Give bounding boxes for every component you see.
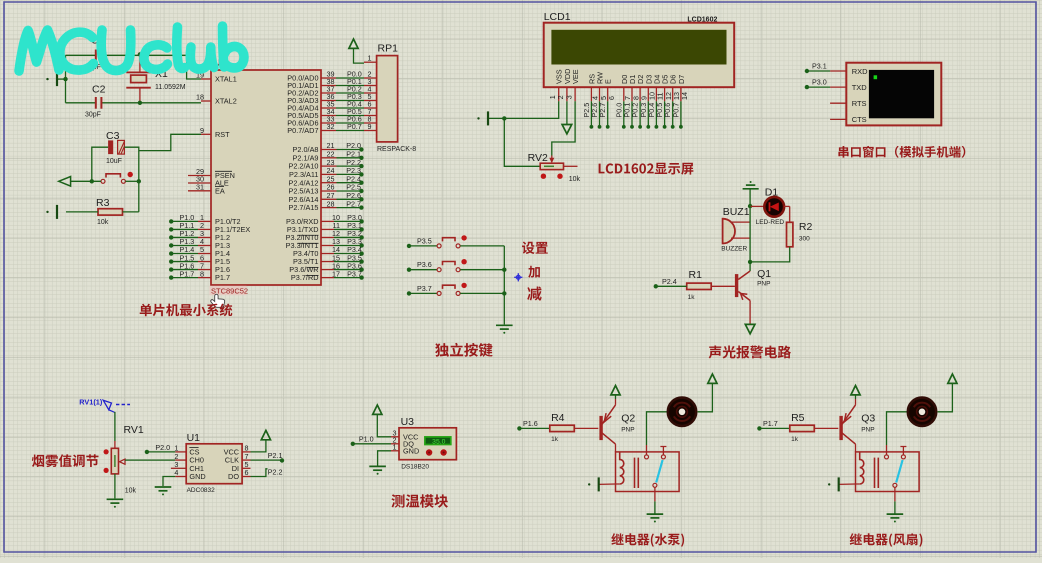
pin P1.4 (5) with net label bbox=[169, 251, 173, 255]
power (U1 VCC) bbox=[261, 430, 270, 439]
pin P2.1/A9 (22) with net label bbox=[321, 157, 337, 159]
ground bbox=[56, 72, 58, 86]
svg-text:10k: 10k bbox=[97, 219, 109, 226]
svg-text:P2.7: P2.7 bbox=[346, 199, 361, 208]
wire power to RP1 pin1 bbox=[354, 48, 365, 63]
wire button P3.6 to common bbox=[460, 269, 504, 271]
net P3.1 bbox=[805, 69, 809, 73]
svg-text:P3.7: P3.7 bbox=[347, 269, 362, 278]
ground (relay) bbox=[887, 514, 904, 518]
ground (U1) bbox=[155, 487, 172, 491]
pin P3.0 (10) with net label bbox=[321, 220, 334, 222]
wire collector to relay box bbox=[855, 444, 857, 452]
ground (relay) bbox=[647, 514, 664, 518]
terminal pin TXD bbox=[830, 86, 846, 88]
U1 pin VCC (8) bbox=[242, 451, 250, 453]
svg-text:300: 300 bbox=[799, 236, 810, 243]
svg-text:RST: RST bbox=[215, 130, 230, 139]
wire VEE to RV2 wiper bbox=[552, 101, 575, 155]
wire D1 to R2 bbox=[784, 205, 790, 207]
net P2.1 bbox=[251, 459, 282, 461]
U3 pin VCC (3) bbox=[391, 436, 399, 438]
pin P3.7 (17) with net label bbox=[321, 277, 334, 279]
wire U1 VCC to power bbox=[251, 440, 266, 452]
wire button P3.7 to common bbox=[460, 292, 504, 294]
svg-text:RESPACK-8: RESPACK-8 bbox=[377, 146, 416, 153]
switch blade (cyan) bbox=[656, 460, 662, 483]
net P1.7 bbox=[757, 426, 761, 430]
pin P3.6 (16) with net label bbox=[321, 269, 334, 271]
junction D1/BUZ1 top bbox=[748, 204, 752, 208]
svg-text:P1.6: P1.6 bbox=[523, 419, 538, 428]
junction crystal bottom bbox=[138, 101, 142, 105]
svg-text:GND: GND bbox=[403, 446, 419, 455]
net P2.4 bbox=[654, 284, 658, 288]
svg-text:R3: R3 bbox=[96, 197, 110, 209]
relay coil bbox=[620, 452, 624, 484]
svg-text:P1.0: P1.0 bbox=[359, 434, 374, 443]
label 声光报警电路 bbox=[709, 345, 791, 358]
svg-text:P3.7: P3.7 bbox=[417, 284, 432, 293]
motor bbox=[908, 398, 936, 426]
net P1.6 bbox=[517, 426, 521, 430]
svg-text:D7: D7 bbox=[677, 75, 686, 84]
svg-text:BUZZER: BUZZER bbox=[721, 246, 747, 253]
terminal pin RXD bbox=[830, 70, 846, 72]
wire Q1 emitter to ground bbox=[749, 301, 751, 325]
pin P3.1 (11) with net label bbox=[321, 228, 334, 230]
ground (U3) bbox=[369, 466, 386, 470]
svg-text:RP1: RP1 bbox=[378, 43, 399, 55]
label 继电器(水泵) bbox=[611, 533, 684, 547]
svg-text:RV1: RV1 bbox=[124, 424, 144, 436]
svg-text:RTS: RTS bbox=[852, 99, 867, 108]
svg-text:P3.7/RD: P3.7/RD bbox=[291, 273, 319, 282]
svg-text:R1: R1 bbox=[689, 269, 703, 281]
wire U3 GND to ground bbox=[378, 451, 391, 466]
pin ALE (30) bbox=[188, 182, 211, 184]
pin P1.6 (7) with net label bbox=[169, 267, 173, 271]
svg-text:DS18B20: DS18B20 bbox=[401, 464, 429, 471]
wire LCD D1 to net P0.1 bbox=[631, 101, 633, 127]
coil to ground-left bbox=[839, 483, 860, 485]
net P2.2 bbox=[251, 469, 268, 477]
wire RST to node bbox=[139, 134, 201, 150]
pin RST (9) bbox=[201, 133, 211, 135]
pin P0.4/AD4 (35) wire to RP1 pin 6 bbox=[321, 107, 336, 109]
push button P3.7 bbox=[407, 291, 411, 295]
wire button left bbox=[71, 180, 101, 182]
svg-text:RV2: RV2 bbox=[528, 152, 548, 164]
power arrow down (VDD) bbox=[562, 125, 572, 134]
wire RV1 wiper to U1 CH0 bbox=[125, 459, 175, 461]
svg-text:1: 1 bbox=[393, 443, 397, 452]
wire LCD RW to net P2.6 bbox=[599, 101, 601, 127]
svg-text:18: 18 bbox=[196, 93, 204, 102]
wire LCD RS to net P2.5 bbox=[590, 101, 592, 127]
power bbox=[851, 386, 860, 395]
svg-text:9: 9 bbox=[200, 126, 204, 135]
pin P0.3/AD3 (36) wire to RP1 pin 5 bbox=[321, 100, 336, 102]
svg-text:6: 6 bbox=[607, 96, 616, 100]
relay box bbox=[616, 452, 680, 492]
svg-text:1k: 1k bbox=[791, 436, 799, 443]
svg-text:C2: C2 bbox=[92, 83, 106, 95]
svg-text:R4: R4 bbox=[551, 412, 565, 424]
power (emitter Q2) bbox=[615, 399, 617, 405]
svg-text:Q1: Q1 bbox=[757, 268, 771, 280]
svg-text:R2: R2 bbox=[799, 221, 813, 233]
svg-text:10k: 10k bbox=[569, 176, 581, 183]
wire U1 GND to ground bbox=[163, 477, 175, 487]
relay common to ground bbox=[894, 487, 896, 501]
U3 pin DQ (2) bbox=[391, 443, 399, 445]
capacitor C2 bbox=[96, 97, 102, 109]
resistor pack RP1 RESPACK-8 bbox=[377, 56, 398, 142]
svg-text:ADC0832: ADC0832 bbox=[187, 487, 216, 494]
wire RV1 bottom to ground bbox=[114, 474, 116, 499]
svg-text:BUZ1: BUZ1 bbox=[723, 206, 750, 218]
wire LCD D0 to net P0.0 bbox=[623, 101, 625, 127]
wire LCD D5 to net P0.5 bbox=[664, 101, 666, 127]
wire button P3.5 to common bbox=[460, 245, 504, 247]
label 测温模块 bbox=[391, 494, 448, 508]
svg-text:30pF: 30pF bbox=[85, 112, 101, 119]
pin P0.0/AD0 (39) wire to RP1 pin 2 bbox=[321, 77, 336, 79]
svg-text:Q3: Q3 bbox=[861, 413, 875, 425]
junction button/R3 node bbox=[137, 179, 141, 183]
svg-text:P0.7: P0.7 bbox=[347, 122, 362, 131]
wire R2 bottom to collector junction bbox=[750, 247, 790, 262]
common button wire to ground bbox=[503, 246, 505, 325]
pin P2.5/A13 (26) with net label bbox=[321, 190, 337, 192]
U3 pin GND (1) bbox=[391, 450, 399, 452]
coil to ground-left bbox=[599, 483, 620, 485]
NC stub bbox=[900, 447, 906, 455]
LCD screen bbox=[551, 30, 726, 65]
svg-text:RXD: RXD bbox=[852, 67, 868, 76]
wire vertical buzzer rail bbox=[749, 206, 751, 262]
svg-text:P1.7: P1.7 bbox=[215, 273, 230, 282]
label 减 bbox=[527, 287, 541, 301]
svg-text:P2.0: P2.0 bbox=[155, 443, 170, 452]
pin P0.5/AD5 (34) wire to RP1 pin 7 bbox=[321, 115, 336, 117]
power (motor) bbox=[948, 374, 957, 383]
base wire bbox=[814, 427, 838, 429]
pin PSEN (29) bbox=[188, 175, 211, 177]
svg-text:TXD: TXD bbox=[852, 83, 868, 92]
svg-text:R5: R5 bbox=[791, 412, 805, 424]
motor to power bbox=[698, 384, 713, 412]
ground (coil) bbox=[598, 477, 600, 491]
wire C3 left to button bbox=[92, 147, 108, 181]
pin P1.7 (8) with net label bbox=[169, 275, 173, 279]
net P3.0 bbox=[805, 85, 809, 89]
pin P0.2/AD2 (37) wire to RP1 pin 4 bbox=[321, 92, 336, 94]
wire C1 top net to XTAL1 bbox=[66, 54, 96, 56]
power bbox=[611, 386, 620, 395]
ground (left of C1) bbox=[57, 78, 66, 80]
junction collector node bbox=[748, 260, 752, 264]
U1 pin CS (1) bbox=[175, 451, 186, 453]
wire LCD E to net P2.7 bbox=[607, 101, 609, 127]
terminal pin CTS bbox=[830, 118, 846, 120]
svg-text:P0.7: P0.7 bbox=[671, 103, 680, 118]
svg-text:P2.7: P2.7 bbox=[598, 103, 607, 118]
svg-text:6: 6 bbox=[245, 468, 249, 477]
motor bbox=[668, 398, 696, 426]
svg-text:P2.4: P2.4 bbox=[662, 277, 677, 286]
label 独立按键 bbox=[435, 343, 493, 357]
svg-text:10uF: 10uF bbox=[106, 158, 122, 165]
motor to power bbox=[938, 384, 953, 412]
wire C3 right / RST node bbox=[124, 147, 138, 212]
power (RP1) bbox=[349, 39, 358, 48]
pin P3.5 (15) with net label bbox=[321, 261, 334, 263]
svg-text:P1.7: P1.7 bbox=[763, 419, 778, 428]
pin P0.1/AD1 (38) wire to RP1 pin 3 bbox=[321, 85, 336, 87]
svg-text:P2.7/A15: P2.7/A15 bbox=[288, 203, 318, 212]
net P2.0 bbox=[145, 450, 149, 454]
label 烟雾值调节 bbox=[32, 454, 99, 467]
NC stub bbox=[660, 447, 666, 455]
svg-text:LCD1: LCD1 bbox=[544, 11, 571, 23]
ground (coil) bbox=[838, 477, 840, 491]
base wire bbox=[711, 285, 735, 287]
junction button/C3 bbox=[90, 179, 94, 183]
label 设置 bbox=[522, 242, 548, 255]
power arrow left (reset rail) bbox=[59, 177, 71, 187]
RV2 wiper arrow bbox=[551, 156, 553, 162]
svg-text:10k: 10k bbox=[125, 488, 137, 495]
label 继电器(风扇) bbox=[850, 533, 923, 547]
svg-text:1k: 1k bbox=[551, 436, 559, 443]
wire junction to Q1 collector bbox=[749, 262, 751, 271]
junction VSS net bbox=[502, 116, 506, 120]
U1 pin CLK (7) bbox=[242, 459, 250, 461]
power-down arrow VDD bbox=[566, 101, 568, 124]
reset button bbox=[101, 179, 105, 183]
wire C2 row to XTAL2 bbox=[66, 102, 96, 104]
power (emitter Q3) bbox=[855, 399, 857, 405]
wire LCD D2 to net P0.2 bbox=[639, 101, 641, 127]
pin P2.3/A11 (24) with net label bbox=[321, 173, 337, 175]
svg-text:35.0: 35.0 bbox=[432, 438, 445, 445]
blue origin marker bbox=[514, 273, 522, 281]
wire LCD D3 to net P0.3 bbox=[647, 101, 649, 127]
pin P2.6/A14 (27) with net label bbox=[321, 198, 337, 200]
svg-text:U1: U1 bbox=[187, 432, 201, 444]
RV1 wiper arrow bbox=[120, 459, 126, 464]
wire contact to motor bbox=[886, 445, 888, 455]
wire contact to motor bbox=[646, 445, 648, 455]
buzzer leads bbox=[731, 221, 750, 223]
relay box bbox=[856, 452, 920, 492]
pin P2.2/A10 (23) with net label bbox=[321, 165, 337, 167]
svg-text:GND: GND bbox=[189, 472, 205, 481]
svg-text:8: 8 bbox=[200, 269, 204, 278]
svg-text:P3.0: P3.0 bbox=[812, 78, 827, 87]
svg-text:XTAL2: XTAL2 bbox=[215, 97, 237, 106]
svg-text:P2.1: P2.1 bbox=[268, 451, 283, 460]
net P1.0 bbox=[351, 442, 355, 446]
svg-text:PNP: PNP bbox=[861, 427, 874, 434]
U1 pin DO (6) bbox=[242, 476, 250, 478]
label 单片机最小系统 bbox=[140, 304, 233, 317]
U1 pin CH1 (3) bbox=[171, 467, 186, 469]
wire C1-C2 vertical bbox=[65, 55, 67, 103]
capacitor C1 bbox=[96, 50, 102, 62]
wire button right to node bbox=[125, 180, 138, 182]
svg-text:U3: U3 bbox=[401, 416, 415, 428]
pin EA (31) bbox=[188, 190, 211, 192]
power rail (alarm, inverted ground bars) bbox=[743, 185, 759, 189]
U1 pin CH0 (2) bbox=[175, 459, 186, 461]
pin P3.4 (14) with net label bbox=[321, 253, 334, 255]
label 串口窗口（模拟手机端） bbox=[838, 146, 965, 158]
serial port window (virtual terminal) bbox=[846, 63, 941, 126]
U1 pin DI (5) bbox=[242, 467, 250, 469]
svg-text:P0.7/AD7: P0.7/AD7 bbox=[287, 126, 318, 135]
pin P1.2 (3) with net label bbox=[169, 235, 173, 239]
svg-text:Q2: Q2 bbox=[621, 413, 635, 425]
U1 pin GND (4) bbox=[175, 476, 186, 478]
power (motor) bbox=[708, 374, 717, 383]
wire R3 right bbox=[123, 211, 139, 213]
ground (buttons) bbox=[496, 325, 513, 329]
junction bbox=[502, 268, 506, 272]
svg-text:3: 3 bbox=[564, 95, 573, 99]
value label STC89C52 (highlighted) bbox=[210, 286, 247, 295]
U3 temperature display 35.0 bbox=[425, 437, 451, 445]
junction bbox=[502, 291, 506, 295]
ground (RV1) bbox=[107, 499, 124, 503]
pin XTAL2 (18) bbox=[201, 100, 211, 102]
switch blade (cyan) bbox=[896, 460, 902, 483]
svg-text:DO: DO bbox=[228, 472, 239, 481]
wire power to U3 VCC bbox=[377, 415, 391, 437]
pin P2.0/A8 (21) with net label bbox=[321, 149, 337, 151]
svg-text:28: 28 bbox=[327, 199, 335, 208]
wire LCD D6 to net P0.6 bbox=[672, 101, 674, 127]
pin P2.7/A15 (28) with net label bbox=[321, 207, 337, 209]
pin P1.5 (6) with net label bbox=[169, 259, 173, 263]
svg-text:P1.7: P1.7 bbox=[180, 269, 195, 278]
wire power to LED/buzzer junction bbox=[749, 189, 751, 206]
svg-text:EA: EA bbox=[215, 186, 225, 195]
svg-text:11.0592M: 11.0592M bbox=[155, 84, 186, 91]
wire collector to relay box bbox=[615, 444, 617, 452]
svg-text:1k: 1k bbox=[688, 294, 696, 301]
wire VSS to ground bbox=[504, 101, 558, 118]
svg-text:PNP: PNP bbox=[757, 281, 770, 288]
hand cursor bbox=[211, 294, 225, 307]
label LCD1602显示屏 bbox=[599, 163, 694, 175]
relay coil bbox=[860, 452, 864, 484]
relay contacts bbox=[645, 455, 649, 459]
ground arrow (Q1 emitter) bbox=[745, 324, 755, 333]
green cursor square bbox=[874, 75, 878, 79]
svg-text:P2.2: P2.2 bbox=[268, 468, 283, 477]
label 加 bbox=[528, 266, 540, 278]
op-amp U2 microcontroller STC89C52 body bbox=[211, 70, 321, 285]
svg-text:P3.1: P3.1 bbox=[812, 62, 827, 71]
push button P3.6 bbox=[407, 268, 411, 272]
ground bbox=[56, 205, 58, 219]
junction C1/ground bbox=[63, 77, 67, 81]
relay contacts bbox=[885, 455, 889, 459]
MCUclub logo bbox=[19, 26, 244, 71]
wire R3 left to ground bbox=[66, 211, 98, 213]
wire LCD D4 to net P0.4 bbox=[655, 101, 657, 127]
svg-text:9: 9 bbox=[368, 122, 372, 131]
power (U3) bbox=[373, 405, 382, 414]
svg-text:CTS: CTS bbox=[852, 115, 867, 124]
pin P2.4/A12 (25) with net label bbox=[321, 182, 337, 184]
pin P3.2 (12) with net label bbox=[321, 236, 334, 238]
push button P3.5 bbox=[407, 244, 411, 248]
relay common to ground bbox=[654, 487, 656, 501]
svg-text:PNP: PNP bbox=[621, 427, 634, 434]
svg-text:LED-RED: LED-RED bbox=[756, 219, 785, 226]
svg-text:1: 1 bbox=[368, 54, 372, 63]
pin P0.7/AD7 (32) wire to RP1 pin 9 bbox=[321, 130, 336, 132]
svg-text:P3.6: P3.6 bbox=[417, 260, 432, 269]
pin P3.3 (13) with net label bbox=[321, 244, 334, 246]
pin P0.6/AD6 (33) wire to RP1 pin 8 bbox=[321, 122, 336, 124]
svg-text:RV1(1): RV1(1) bbox=[79, 398, 103, 407]
junction crystal top bbox=[138, 52, 142, 56]
base wire bbox=[574, 427, 598, 429]
pin P1.0 (1) with net label bbox=[169, 219, 173, 223]
svg-text:31: 31 bbox=[196, 182, 204, 191]
ground (LCD VSS) bbox=[487, 111, 489, 125]
svg-text:VEE: VEE bbox=[571, 69, 580, 84]
terminal pin RTS bbox=[830, 102, 846, 104]
pin P1.3 (4) with net label bbox=[169, 243, 173, 247]
svg-text:P3.5: P3.5 bbox=[417, 236, 432, 245]
svg-text:14: 14 bbox=[680, 92, 689, 100]
svg-text:17: 17 bbox=[332, 269, 340, 278]
svg-text:E: E bbox=[604, 79, 613, 84]
wire LCD D7 to net P0.7 bbox=[680, 101, 682, 127]
svg-text:XTAL1: XTAL1 bbox=[215, 75, 237, 84]
svg-text:32: 32 bbox=[327, 122, 335, 131]
pin XTAL1 (19) bbox=[201, 78, 211, 80]
pin P1.1 (2) with net label bbox=[169, 227, 173, 231]
